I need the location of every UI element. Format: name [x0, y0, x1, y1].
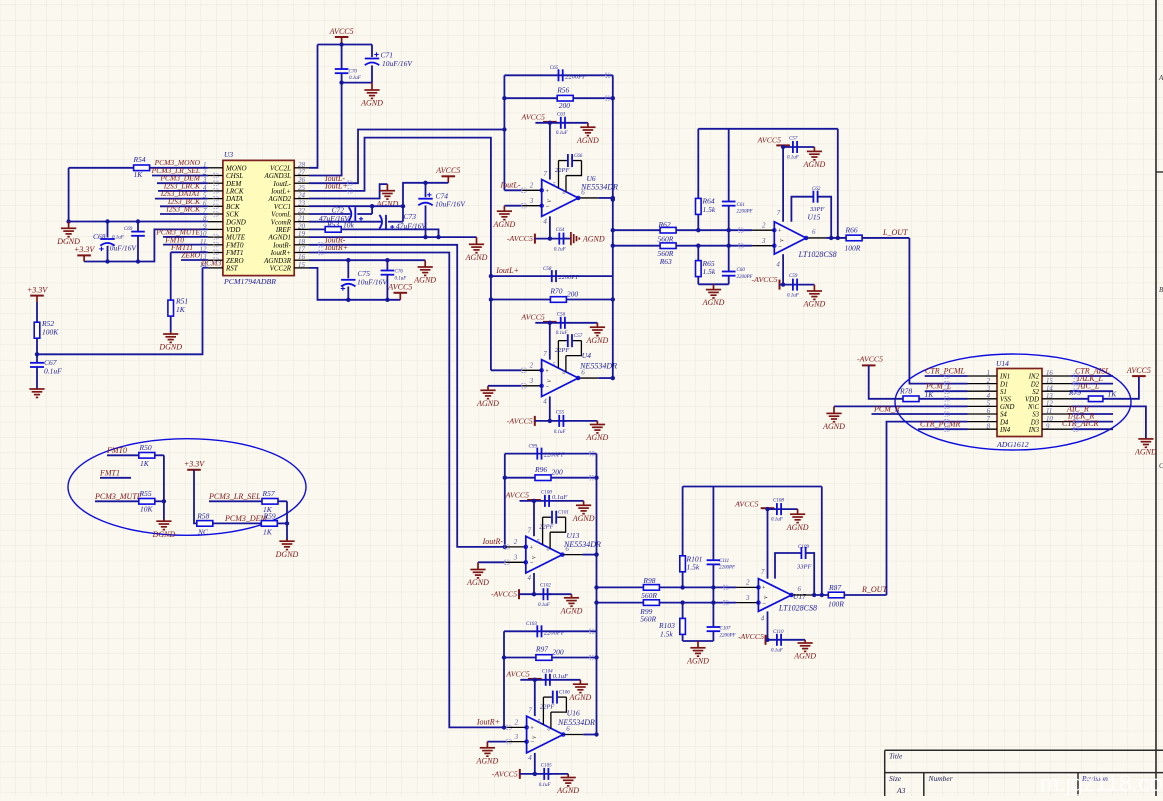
ground AGND U16 pin3 — [487, 741, 506, 743]
power +3.3V bottom-left — [30, 295, 44, 297]
op-amp U16 pin 6 output — [563, 734, 583, 736]
ground AGND U14 left — [833, 406, 835, 413]
wire AVCC5 row U17 — [768, 508, 798, 510]
svg-text:PCM3_MUTE: PCM3_MUTE — [94, 492, 142, 501]
svg-text:8: 8 — [547, 546, 550, 552]
U14 pin 13 VDD — [1042, 398, 1072, 400]
svg-text:10uF/16V: 10uF/16V — [357, 278, 388, 287]
svg-text:0.1uF: 0.1uF — [553, 673, 569, 680]
svg-text:C107: C107 — [720, 627, 731, 632]
svg-text:2200PF: 2200PF — [720, 634, 737, 639]
U14 pin 10 D3 — [1042, 421, 1072, 423]
op-amp U16 pin 3 stub — [507, 741, 527, 743]
svg-text:7: 7 — [528, 707, 532, 715]
svg-text:+: + — [545, 188, 549, 195]
svg-text:A3: A3 — [896, 786, 906, 795]
op-amp U6 pin7 V+ wire — [549, 123, 551, 180]
svg-text:10uF/16V: 10uF/16V — [435, 200, 466, 209]
U3 pin 6 BCK — [208, 205, 223, 207]
svg-text:0.1uF: 0.1uF — [44, 367, 62, 376]
svg-text:1.5k: 1.5k — [687, 563, 700, 572]
power AVCC5 U6 — [543, 121, 557, 123]
svg-text:C69: C69 — [124, 227, 133, 232]
resistor R79 1K — [1072, 398, 1089, 400]
U3 pin 8 DGND — [208, 221, 223, 223]
svg-text:2200PF: 2200PF — [544, 629, 566, 636]
svg-text:8: 8 — [562, 370, 565, 376]
svg-text:560R: 560R — [641, 591, 657, 600]
svg-text:AGND: AGND — [803, 160, 826, 169]
wire NC row to AGND — [1072, 406, 1146, 439]
svg-text:2: 2 — [987, 378, 991, 385]
power AVCC5 U13 — [527, 499, 541, 501]
wire DGND rail U3 pin8 — [69, 221, 208, 223]
svg-text:U13: U13 — [567, 531, 580, 540]
U3 pin 3 DEM — [208, 182, 223, 184]
U3 pin 18 IoutR- — [294, 244, 309, 246]
svg-text:1.5k: 1.5k — [703, 205, 716, 214]
svg-text:C73: C73 — [404, 212, 417, 221]
U3 pin 1 MONO — [208, 167, 223, 169]
resistor R52 100K — [36, 302, 38, 322]
svg-text:10: 10 — [1046, 416, 1053, 423]
svg-text:0.1uF: 0.1uF — [787, 156, 800, 161]
svg-text:C64: C64 — [556, 228, 565, 233]
wire VCC1 pin23 row — [309, 205, 403, 207]
wire AVCC5 decoupling row U13 — [520, 500, 584, 502]
svg-text:+3.3V: +3.3V — [74, 245, 95, 254]
op-amp U4 pin4 V- wire — [549, 396, 551, 420]
svg-text:200: 200 — [552, 468, 564, 477]
resistor R70 200 feedback U4 — [491, 299, 613, 301]
svg-text:-AVCC5: -AVCC5 — [738, 632, 764, 641]
svg-text:C103: C103 — [526, 622, 537, 627]
svg-text:AVCC5: AVCC5 — [734, 499, 759, 508]
svg-text:2: 2 — [762, 221, 766, 229]
svg-text:1K: 1K — [1108, 390, 1118, 399]
capacitor C101 22PF comp U13 — [542, 517, 544, 544]
power AVCC5 U4 — [543, 321, 557, 323]
svg-text:1: 1 — [987, 370, 990, 377]
svg-text:16: 16 — [1046, 370, 1053, 377]
resistor R62 560R — [613, 229, 660, 231]
resistor R87 100R — [828, 592, 844, 598]
svg-text:AGND: AGND — [582, 235, 605, 244]
resistor R103 1.5k — [682, 603, 684, 619]
svg-text:R55: R55 — [139, 489, 152, 498]
svg-text:2200PF: 2200PF — [565, 73, 587, 80]
svg-text:S1: S1 — [1000, 389, 1007, 396]
svg-text:C57: C57 — [789, 137, 798, 142]
svg-text:IoutL-: IoutL- — [500, 180, 521, 189]
resistor R66 100R — [846, 235, 862, 241]
U14 pin 15 D2 — [1042, 383, 1072, 385]
op-amp U15 pin7 wire — [782, 147, 784, 222]
capacitor C109 33PF comp U17 — [775, 553, 801, 579]
svg-text:200: 200 — [552, 648, 564, 657]
svg-text:D1: D1 — [999, 381, 1008, 388]
svg-text:AGND: AGND — [466, 578, 489, 587]
svg-text:1K: 1K — [134, 170, 144, 179]
wire -AVCC5 to R78 — [869, 365, 903, 398]
svg-text:R97: R97 — [535, 645, 548, 654]
wire AVCC5 decoupling row U16 — [520, 679, 580, 681]
svg-text:6: 6 — [812, 228, 816, 236]
svg-text:R98: R98 — [642, 576, 655, 585]
wire R57 R59 to DGND — [286, 501, 288, 541]
ground AGND for AVCC5 U4 — [596, 323, 598, 327]
U3 pin 17 IoutR+ — [294, 252, 309, 254]
svg-text:0.1uF: 0.1uF — [556, 131, 569, 136]
svg-text:1K: 1K — [263, 528, 273, 537]
svg-text:R78: R78 — [899, 387, 912, 396]
op-amp U16 pin7 V+ wire — [534, 680, 536, 716]
op-amp U17 pin3 stub — [736, 602, 758, 604]
ellipse highlight right — [895, 354, 1131, 450]
ground AGND for AVCC5 U16 — [579, 680, 581, 684]
wire IoutL- U3 pin26 to U6 — [309, 130, 504, 184]
wire AGND rail to U3 pin27 AGND3L — [309, 83, 342, 176]
svg-text:AGND: AGND — [493, 220, 516, 229]
svg-text:IoutL+: IoutL+ — [495, 266, 519, 275]
svg-text:R70: R70 — [549, 287, 562, 296]
capacitor C100 0.1uF U13 — [544, 495, 546, 507]
capacitor C69 0.1uF — [137, 222, 139, 232]
ground DGND right of ellipse — [286, 539, 288, 541]
svg-text:AGND: AGND — [686, 656, 709, 665]
svg-text:AGND: AGND — [822, 422, 845, 431]
svg-text:+: + — [529, 545, 533, 552]
ground AGND U4 pin3 — [488, 385, 522, 387]
svg-text:−: − — [529, 560, 533, 567]
capacitor C104 0.1uF U16 — [545, 674, 547, 686]
U14 pin 1 IN1 — [968, 375, 998, 377]
svg-text:D4: D4 — [999, 419, 1009, 426]
wire +3.3V rail to U3 pin9 VDD — [84, 229, 208, 261]
wire -AVCC5 row U15 — [780, 284, 815, 286]
ground AGND U14 right — [1138, 438, 1153, 440]
svg-text:3: 3 — [529, 197, 534, 205]
op-amp U13 pin7 V+ wire — [533, 501, 535, 536]
svg-text:2: 2 — [514, 538, 518, 546]
svg-text:−: − — [762, 601, 766, 608]
svg-text:FMT1: FMT1 — [99, 468, 120, 477]
svg-text:C66: C66 — [574, 154, 583, 159]
svg-text:m.jgz118.com: m.jgz118.com — [1040, 770, 1163, 796]
svg-text:-AVCC5: -AVCC5 — [507, 234, 533, 243]
svg-text:6: 6 — [566, 725, 570, 733]
svg-text:C109: C109 — [798, 545, 809, 550]
ground AGND rotated U6 — [564, 238, 571, 240]
svg-text:ZERO: ZERO — [181, 251, 200, 260]
U3 pin 16 AGND3R — [294, 259, 309, 261]
svg-text:DGND: DGND — [152, 530, 176, 539]
svg-text:3: 3 — [514, 733, 519, 741]
op-amp U17 pin6 output — [792, 594, 812, 596]
op-amp U15 pin6 output — [806, 237, 826, 239]
svg-text:0.1uF: 0.1uF — [556, 331, 569, 336]
svg-text:8: 8 — [547, 726, 550, 732]
svg-text:7: 7 — [543, 170, 547, 178]
power AVCC5 right of U3 — [442, 175, 456, 177]
svg-text:AGND: AGND — [560, 606, 583, 615]
capacitor C62 33PF comp U15 — [791, 197, 813, 222]
svg-text:3: 3 — [529, 377, 534, 385]
capacitor C68 10uF/16V electrolytic — [107, 222, 109, 238]
U3 pin 15 VCC2R — [294, 267, 309, 269]
svg-text:2200PF: 2200PF — [544, 452, 566, 459]
resistor R55 10K — [95, 500, 139, 502]
svg-text:C108: C108 — [773, 499, 784, 504]
resistor R96 200 feedback U13 — [505, 477, 597, 479]
capacitor C63 0.1uF U6 — [560, 117, 562, 129]
title block — [885, 749, 1163, 751]
svg-text:AVCC5: AVCC5 — [520, 312, 545, 321]
svg-text:−: − — [530, 739, 534, 746]
svg-text:ADG1612: ADG1612 — [996, 440, 1029, 449]
wire IoutR+ U3 pin17 to U16 — [309, 253, 506, 728]
op-amp U6 pin 6 output — [578, 197, 598, 199]
svg-text:22PF: 22PF — [555, 347, 570, 354]
wire R_OUT to U14 D4 — [887, 422, 968, 595]
svg-text:RST: RST — [225, 265, 239, 273]
svg-text:0.1uF: 0.1uF — [554, 430, 567, 435]
capacitor C65 2200PF feedback U6 — [504, 74, 612, 76]
svg-text:D2: D2 — [1030, 381, 1040, 388]
svg-text:R53: R53 — [326, 220, 339, 229]
U3 pin 21 VcomR — [294, 221, 309, 223]
resistor R50 1K — [107, 454, 139, 456]
svg-text:1K: 1K — [176, 305, 186, 314]
svg-text:1K: 1K — [925, 390, 935, 399]
svg-text:NC: NC — [197, 528, 209, 537]
op-amp U6 NE5534DR — [542, 180, 579, 217]
svg-text:C62: C62 — [812, 187, 821, 192]
resistor R64 1.5k — [697, 129, 699, 199]
svg-text:R54: R54 — [133, 155, 146, 164]
capacitor C67 0.1uF — [30, 362, 44, 364]
svg-text:IN4: IN4 — [999, 427, 1011, 434]
wire AGND1 pin19 row — [309, 236, 477, 238]
op-amp U6 pin 3 stub — [522, 205, 542, 207]
svg-text:PCM3_LR_SEL: PCM3_LR_SEL — [208, 492, 261, 501]
op-amp U17 pin2 stub — [736, 586, 758, 588]
svg-text:AGND: AGND — [586, 336, 609, 345]
svg-text:13: 13 — [1046, 393, 1053, 400]
svg-text:11: 11 — [1046, 408, 1052, 415]
wire -AVCC5 row U13 — [519, 593, 551, 595]
ground AGND U6 pin3 — [504, 205, 521, 207]
ground AGND for -AVCC5 U4 — [564, 420, 598, 422]
svg-text:4: 4 — [987, 393, 991, 400]
wire IoutR- U3 pin18 to U13 — [309, 245, 506, 547]
U3 pin 5 DATA — [208, 198, 223, 200]
svg-text:2: 2 — [530, 182, 534, 190]
svg-text:3: 3 — [761, 237, 766, 245]
svg-text:IoutR+: IoutR+ — [476, 717, 500, 726]
svg-text:AGND: AGND — [569, 693, 592, 702]
wire U15 feedback right vertical — [837, 129, 839, 238]
svg-text:NE5534DR: NE5534DR — [557, 718, 595, 727]
power +3.3V left — [77, 254, 91, 256]
svg-text:AGND: AGND — [556, 786, 579, 795]
svg-text:7: 7 — [761, 568, 765, 576]
resistor R59 1K — [261, 521, 277, 527]
svg-text:5: 5 — [552, 363, 555, 369]
op-amp U4 NE5534DR — [542, 360, 579, 397]
svg-text:DGND: DGND — [158, 343, 182, 352]
wire AGND2 pin24 to AGND — [309, 184, 387, 198]
svg-text:U14: U14 — [996, 359, 1009, 368]
svg-text:AGND: AGND — [476, 756, 499, 765]
op-amp U4 pin 3 stub — [522, 385, 542, 387]
svg-text:0.1uF: 0.1uF — [538, 603, 551, 608]
svg-text:200: 200 — [567, 290, 579, 299]
capacitor C73 47uF/16V electrolytic on VcomR — [309, 221, 381, 223]
svg-text:C111: C111 — [719, 559, 729, 564]
svg-text:8: 8 — [987, 423, 991, 430]
capacitor C56 0.1uF U4 — [560, 317, 562, 329]
svg-text:−: − — [545, 383, 549, 390]
wire U17 feedback right vertical — [821, 487, 823, 596]
svg-text:10uF/16V: 10uF/16V — [382, 59, 413, 68]
resistor R53 10k on IREF pin20 — [309, 228, 325, 230]
op-amp U6 pin4 V- wire — [549, 216, 551, 238]
U14 pin 2 D1 — [968, 383, 998, 385]
svg-text:IN2: IN2 — [1028, 374, 1040, 381]
ground AGND -AVCC5 U15 — [813, 285, 815, 291]
wire -AVCC5 row U17 — [766, 639, 806, 641]
wire R50 down to DGND — [163, 455, 165, 501]
svg-text:AGND: AGND — [413, 276, 436, 285]
wire R79 to AVCC5 — [1103, 376, 1139, 399]
svg-text:100R: 100R — [845, 244, 861, 253]
svg-text:AGND: AGND — [1134, 448, 1157, 457]
svg-text:VSS: VSS — [1000, 397, 1012, 404]
svg-text:AGND: AGND — [476, 399, 499, 408]
svg-text:6: 6 — [581, 368, 585, 376]
ellipse highlight left — [68, 439, 306, 536]
svg-text:R57: R57 — [262, 489, 275, 498]
wire R54 to DGND rail — [68, 168, 70, 222]
op-amp U4 pin 6 output — [578, 377, 598, 379]
grid marks decorative — [214, 173, 218, 177]
svg-text:AGND: AGND — [786, 523, 809, 532]
ground GND under C67 — [29, 388, 44, 390]
svg-text:2200PF: 2200PF — [558, 274, 580, 281]
svg-text:-AVCC5: -AVCC5 — [492, 769, 518, 778]
svg-text:33PF: 33PF — [809, 206, 825, 213]
svg-text:4: 4 — [528, 574, 532, 582]
ground AGND pin16 — [424, 260, 426, 267]
svg-text:AGND: AGND — [360, 99, 383, 108]
svg-text:R62: R62 — [658, 220, 671, 229]
svg-text:I2S3_MCK: I2S3_MCK — [165, 205, 201, 214]
svg-text:+: + — [545, 368, 549, 375]
svg-text:22PF: 22PF — [540, 704, 555, 711]
svg-text:NE5534DR: NE5534DR — [579, 362, 617, 371]
svg-text:14: 14 — [200, 261, 208, 269]
U14 pin 3 S1 — [968, 390, 998, 392]
svg-text:C76: C76 — [395, 270, 404, 275]
svg-text:5: 5 — [537, 539, 540, 545]
svg-text:4: 4 — [543, 217, 547, 225]
wire AGND3R pin16 row — [309, 259, 425, 261]
svg-text:C60: C60 — [737, 268, 746, 273]
svg-text:C58: C58 — [543, 267, 552, 272]
svg-text:LT1028CS8: LT1028CS8 — [778, 604, 817, 613]
svg-text:C57: C57 — [574, 334, 583, 339]
svg-text:7: 7 — [987, 416, 991, 423]
capacitor C57 0.1uF U15 — [792, 141, 794, 153]
U14 pin 7 D4 — [968, 421, 998, 423]
svg-text:U15: U15 — [808, 213, 821, 222]
svg-text:C99: C99 — [529, 444, 538, 449]
capacitor C75 10uF/16V electrolytic — [347, 260, 349, 278]
resistor R101 1.5k — [682, 487, 684, 556]
svg-text:7: 7 — [777, 209, 781, 217]
ground DGND mid ellipse — [163, 501, 165, 521]
capacitor C111 2200PF — [712, 487, 714, 561]
svg-text:AVCC5: AVCC5 — [435, 166, 460, 175]
svg-text:S4: S4 — [1000, 412, 1007, 419]
svg-text:33PF: 33PF — [796, 564, 812, 571]
ground AGND for -AVCC5 U16 — [549, 773, 569, 775]
svg-text:15: 15 — [1046, 378, 1053, 385]
svg-text:10uF/16V: 10uF/16V — [106, 244, 137, 253]
capacitor C60 2200PF — [728, 246, 730, 272]
wire R53 to AGND1 row — [341, 229, 438, 237]
svg-text:12: 12 — [1046, 401, 1053, 408]
svg-text:IoutR+: IoutR+ — [324, 243, 348, 252]
svg-text:+: + — [530, 725, 534, 732]
svg-text:2200PF: 2200PF — [719, 566, 736, 571]
wire -AVCC5 row U6 — [535, 238, 567, 240]
wire U13 U16 output vertical — [596, 454, 598, 735]
svg-text:0.1uF: 0.1uF — [552, 494, 568, 501]
op-amp U17 pin7 wire — [767, 509, 769, 578]
wire U6 output vertical — [612, 75, 614, 378]
svg-text:AVCC5: AVCC5 — [757, 135, 782, 144]
U3 pin 7 SCK — [208, 213, 223, 215]
wire IoutL+ U3 pin25 to U4 — [309, 138, 491, 277]
resistor R98 560R — [597, 586, 644, 588]
power AVCC5 U15 — [776, 144, 790, 146]
wire -AVCC5 row U16 — [520, 773, 552, 775]
svg-text:R_OUT: R_OUT — [861, 585, 887, 594]
svg-text:R66: R66 — [845, 226, 858, 235]
wire U17 feedback top — [683, 486, 822, 488]
svg-text:AGND: AGND — [576, 136, 599, 145]
U3 pin 11 FMT0 — [208, 244, 223, 246]
wire AVCC5 down to VCC1 — [403, 183, 448, 206]
svg-text:C106: C106 — [559, 691, 570, 696]
svg-text:PCM_R: PCM_R — [873, 404, 900, 413]
svg-text:7: 7 — [543, 350, 547, 358]
op-amp U13 NE5534DR — [526, 536, 563, 573]
svg-text:560R: 560R — [640, 615, 656, 624]
capacitor C64 0.1uF U6 — [558, 233, 560, 245]
svg-text:5: 5 — [537, 719, 540, 725]
svg-text:IN1: IN1 — [999, 374, 1010, 381]
svg-text:0.1uF: 0.1uF — [112, 236, 125, 241]
svg-text:9: 9 — [1046, 423, 1050, 430]
svg-text:N\C: N\C — [1027, 404, 1039, 411]
capacitor C108 0.1uF U17 — [776, 503, 778, 515]
svg-text:5: 5 — [987, 401, 991, 408]
capacitor C58 2200PF feedback U4 — [491, 275, 613, 277]
svg-text:IoutR-: IoutR- — [482, 537, 504, 546]
